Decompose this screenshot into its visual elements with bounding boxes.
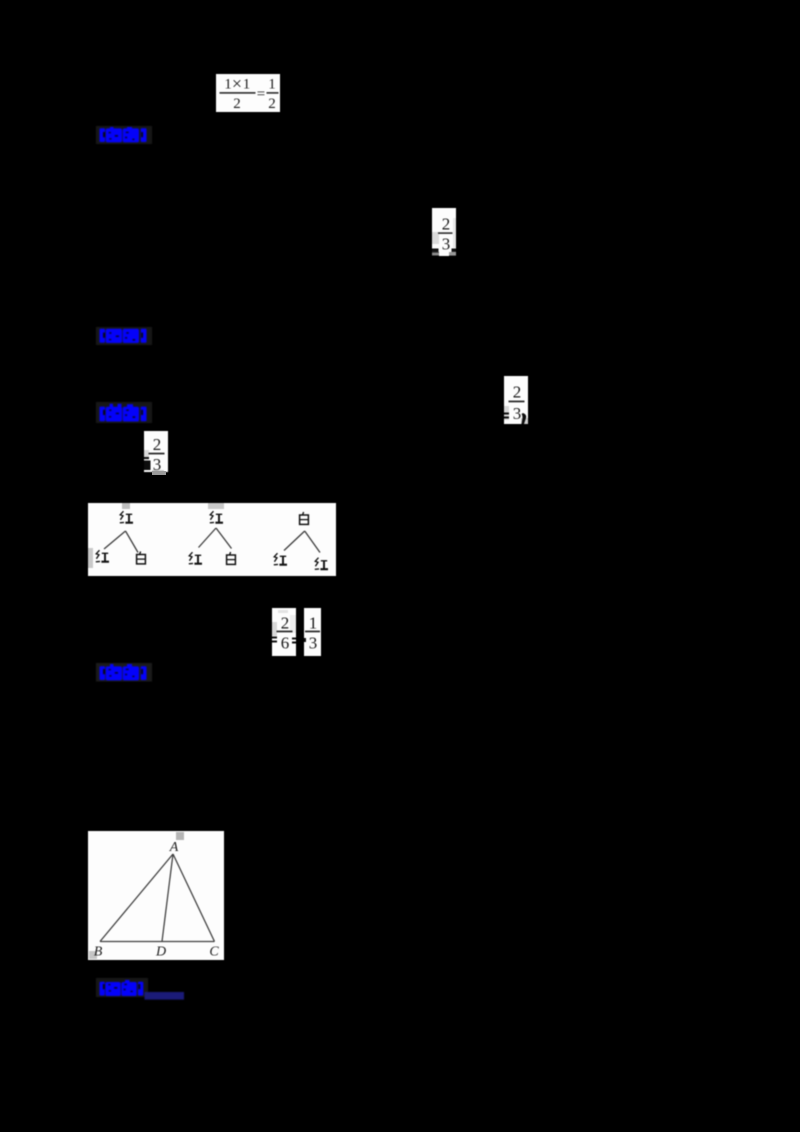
fraction image 2/3 with comma (right) [504, 376, 528, 424]
svg-text:×: × [232, 74, 242, 94]
formula image: (1×1)/2 = 1/2 [216, 74, 280, 112]
t2 left 红 [189, 552, 202, 564]
tree 2 branches [199, 528, 217, 548]
svg-text:1: 1 [224, 77, 232, 93]
blue label 1 【点评】 [96, 126, 156, 145]
svg-text:2: 2 [153, 435, 162, 454]
triangle geometry image ABDC [88, 831, 224, 960]
side AB [100, 854, 173, 942]
t3 right 红 [315, 558, 328, 570]
svg-text:2: 2 [233, 96, 241, 112]
blue label 2 【分析】 [96, 327, 156, 346]
svg-text:1: 1 [243, 77, 251, 93]
svg-text:2: 2 [513, 383, 522, 402]
t1 right 白 [137, 552, 146, 564]
fraction image 2/3 (first) [432, 208, 456, 256]
gray remnant strip under 2/3 fraction [152, 471, 166, 475]
tree 3 branches [284, 531, 305, 551]
base BC [100, 941, 215, 943]
svg-text:3: 3 [153, 455, 162, 472]
t2 right 白 [227, 552, 236, 564]
svg-text:=: = [257, 87, 265, 103]
blue label 3 【解答】 [96, 402, 156, 424]
svg-text:C: C [209, 945, 219, 960]
cevian AD [162, 854, 173, 942]
t2 root 红 [210, 511, 223, 523]
svg-text:A: A [169, 840, 179, 855]
svg-text:B: B [94, 945, 103, 960]
blue label 4 【点评】 [96, 662, 156, 682]
svg-text:1: 1 [309, 614, 318, 633]
hyperlink underline bar [145, 992, 185, 1000]
svg-text:3: 3 [442, 235, 451, 254]
svg-text:3: 3 [309, 634, 318, 653]
svg-text:3: 3 [513, 404, 522, 423]
tree diagram image (red/white ball trees) [88, 503, 336, 576]
fraction image 2/3 (left, in solution line) [144, 431, 168, 472]
fraction image 2/6 [272, 608, 296, 656]
t3 left 红 [274, 553, 287, 565]
svg-text:2: 2 [268, 96, 276, 112]
svg-text:D: D [155, 945, 166, 960]
t1 root 红 [120, 511, 133, 523]
svg-text:2: 2 [442, 215, 451, 234]
svg-text:2: 2 [281, 614, 290, 633]
svg-text:1: 1 [268, 77, 276, 93]
side AC [173, 854, 215, 942]
tree 1 branches [104, 531, 126, 549]
svg-text:6: 6 [281, 634, 290, 653]
t3 root 白 [300, 512, 309, 524]
fraction image 1/3 [304, 608, 321, 656]
blue label 5 【考点】 [96, 978, 196, 1001]
t1 left 红 [96, 550, 109, 562]
